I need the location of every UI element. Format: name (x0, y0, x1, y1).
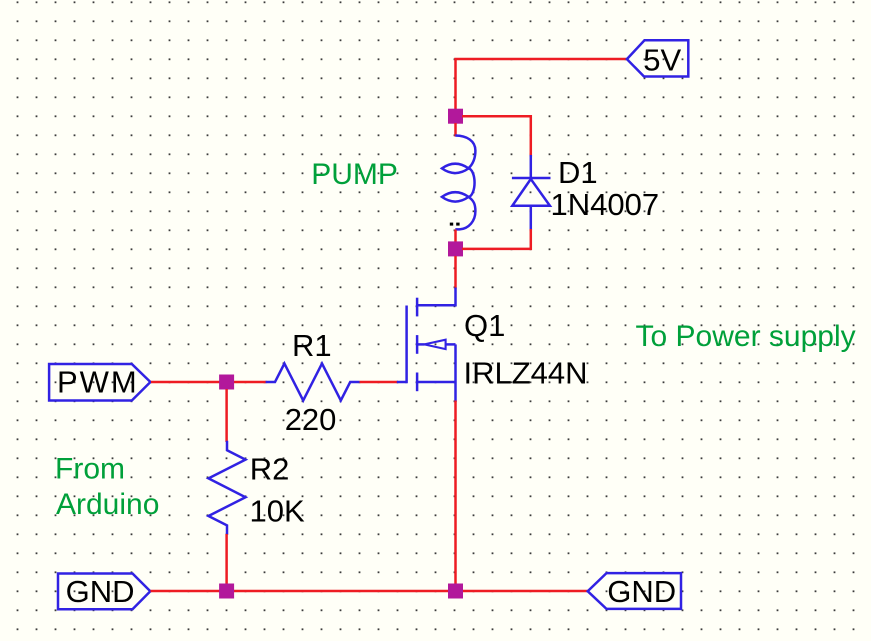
svg-text:PUMP: PUMP (311, 158, 398, 191)
junction node B (bottom of inductor / diode anode branch) (448, 241, 463, 256)
svg-text:To Power supply: To Power supply (636, 320, 856, 353)
wire PWM to node C and R1 (151, 381, 267, 384)
svg-text:GND: GND (607, 574, 676, 609)
wire R1 to Q1 gate (360, 381, 398, 384)
resistor R1 (266, 364, 360, 401)
svg-text:R1: R1 (292, 328, 332, 363)
svg-text:GND: GND (66, 574, 135, 609)
port flag PWM (49, 364, 150, 401)
ground flag GND right (588, 573, 681, 609)
wire node A to inductor top (454, 123, 457, 137)
svg-text:10K: 10K (250, 493, 305, 528)
junction node E (R2 / ground rail) (219, 584, 234, 599)
svg-text:5V: 5V (643, 43, 681, 78)
inductor PUMP (coil) (442, 136, 476, 230)
transistor Q1 IRLZ44N (N-MOSFET) (397, 288, 456, 403)
wire node C to R2 top (225, 389, 228, 442)
inductor polarity dots (450, 223, 453, 226)
junction node C (PWM / R2 top) (219, 375, 234, 390)
svg-text:IRLZ44N: IRLZ44N (464, 356, 588, 391)
svg-text:D1: D1 (558, 155, 598, 190)
ground flag GND left (58, 574, 150, 610)
wire Q1 source to node D (454, 401, 457, 586)
svg-text:Q1: Q1 (464, 308, 505, 343)
power flag 5V (627, 40, 688, 76)
wire node A to diode cathode (top right branch) (462, 116, 531, 156)
wire inductor bottom to node B (454, 230, 457, 244)
wire diode anode to node B (bottom right branch) (462, 229, 531, 249)
svg-text:Arduino: Arduino (56, 488, 159, 521)
resistor R2 (209, 441, 246, 535)
Q1 body-diode arrow (424, 340, 445, 349)
svg-text:R2: R2 (250, 451, 290, 486)
svg-text:From: From (55, 453, 125, 486)
diode D1 1N4007 (512, 155, 551, 230)
junction node D (Q1 source / ground rail) (448, 584, 463, 599)
svg-text:220: 220 (285, 402, 337, 437)
wire R2 bottom to ground rail (225, 534, 228, 585)
wire node B to Q1 drain (454, 256, 457, 289)
junction node A (top of inductor / diode cathode branch) (448, 109, 463, 124)
svg-text:PWM: PWM (57, 365, 139, 400)
wire ground rail (151, 590, 589, 593)
wire 5V net: top horizontal and vertical to node A (456, 59, 628, 110)
svg-text:1N4007: 1N4007 (551, 187, 660, 222)
